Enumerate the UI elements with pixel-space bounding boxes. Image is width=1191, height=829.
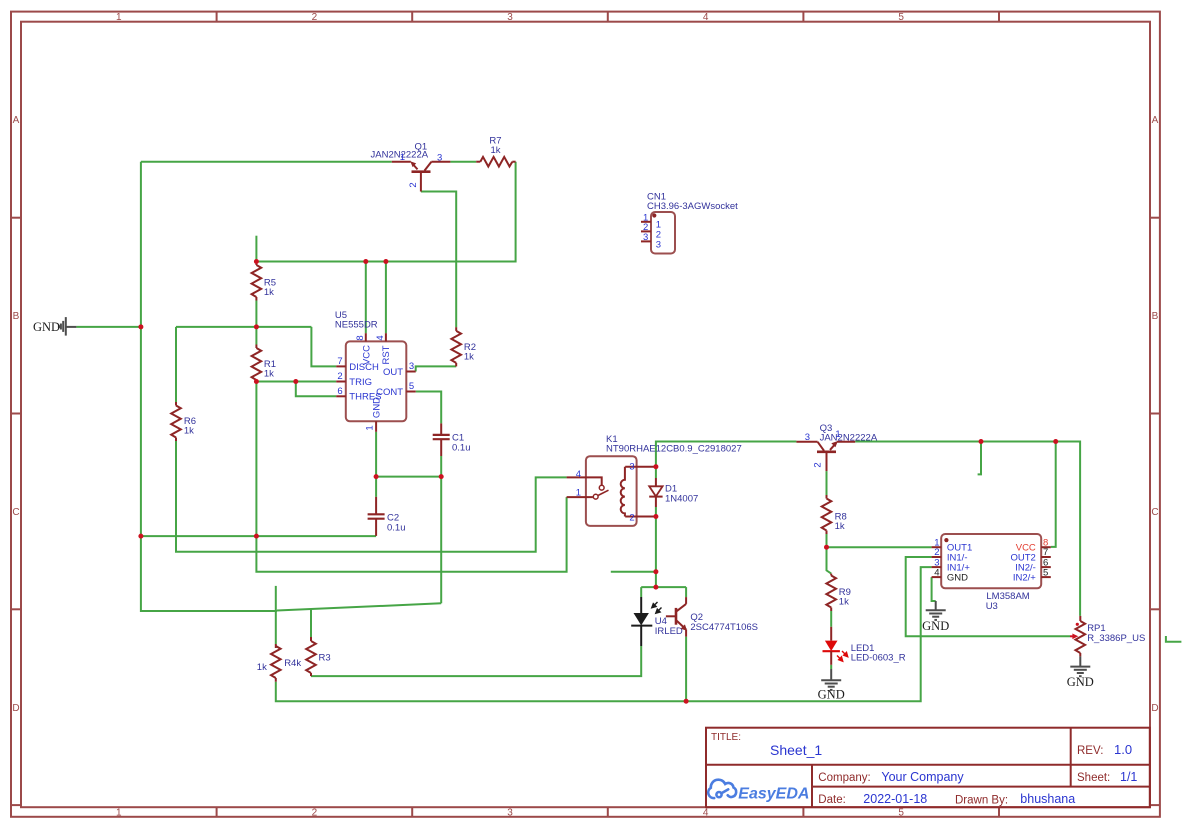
svg-text:2: 2 xyxy=(312,12,318,23)
wire U5 pin1 drop xyxy=(375,432,377,477)
resistor body R1 xyxy=(252,348,262,380)
svg-text:3: 3 xyxy=(629,462,634,473)
photodiode U4 IRLED xyxy=(631,597,652,646)
resistor body R7 xyxy=(480,157,512,167)
diode D1 xyxy=(655,478,657,486)
svg-text:Company:: Company: xyxy=(818,772,870,784)
resistor body R5 xyxy=(252,265,262,297)
svg-text:EasyEDA: EasyEDA xyxy=(738,785,809,802)
ground symbol U3 GND xyxy=(926,601,946,620)
svg-text:1: 1 xyxy=(400,152,405,163)
svg-text:1k: 1k xyxy=(464,352,474,363)
relay K1 box xyxy=(586,456,637,526)
potentiometer RP1 xyxy=(1079,616,1081,621)
svg-text:B: B xyxy=(1152,311,1159,322)
wire U3 pin2 to RP1 wiper xyxy=(906,557,1070,636)
junction R5/R1 node xyxy=(254,324,259,329)
svg-text:B: B xyxy=(13,311,20,322)
relay K1 switch lever xyxy=(598,490,608,495)
wire C1 column lower xyxy=(440,477,442,604)
wire stray L wire at margin xyxy=(1166,636,1182,642)
transistor Q1 xyxy=(392,162,451,192)
op-amp U3 LM358AM box xyxy=(941,534,1041,588)
wire diagonal segment xyxy=(277,603,441,610)
svg-text:1k: 1k xyxy=(257,662,267,673)
svg-text:U3: U3 xyxy=(986,601,998,612)
svg-text:1k: 1k xyxy=(264,287,274,298)
wire R9 to LED1 xyxy=(830,611,832,627)
svg-text:4: 4 xyxy=(703,12,709,23)
wire U5 pin8 drop xyxy=(365,262,367,334)
svg-text:NT90RHAE12CB0.9_C2918027: NT90RHAE12CB0.9_C2918027 xyxy=(606,444,742,455)
wire CONT to C1 top xyxy=(416,392,442,424)
wire D1 anode lead wire xyxy=(655,467,657,478)
wire R3 top lead wire xyxy=(310,609,312,637)
svg-text:1.0: 1.0 xyxy=(1114,742,1132,757)
wire R8 bottom lead wire xyxy=(826,534,828,547)
svg-text:2: 2 xyxy=(408,182,419,187)
EasyEDA logo cloud xyxy=(708,780,736,798)
svg-text:8: 8 xyxy=(355,335,366,340)
svg-text:3: 3 xyxy=(643,232,648,243)
LED LED1 xyxy=(830,627,832,641)
svg-text:0.1u: 0.1u xyxy=(387,522,406,533)
U3 pin1 dot xyxy=(944,538,948,542)
svg-text:CONT: CONT xyxy=(376,387,403,398)
svg-text:5: 5 xyxy=(1043,567,1048,578)
connector CN1 xyxy=(651,212,675,254)
relay K1 pin 2 xyxy=(625,516,656,518)
svg-text:R_3386P_US: R_3386P_US xyxy=(1087,633,1145,644)
wire TRIG rail xyxy=(256,381,336,383)
wire R5 bottom rail xyxy=(176,326,311,328)
wire R5 bottom lead wire xyxy=(255,301,257,327)
svg-text:REV:: REV: xyxy=(1077,745,1103,757)
relay K1 pin 3 xyxy=(625,466,656,468)
wire R1 top lead wire xyxy=(255,327,257,345)
svg-text:1: 1 xyxy=(116,12,122,23)
svg-text:GND: GND xyxy=(33,320,60,334)
junction GND node xyxy=(138,324,143,329)
svg-text:3: 3 xyxy=(507,12,513,23)
svg-text:1k: 1k xyxy=(264,369,274,380)
resistor R5 leads xyxy=(255,262,257,266)
RP1 top mark dot xyxy=(1076,623,1079,626)
svg-text:C: C xyxy=(1151,507,1158,518)
capacitor C1 xyxy=(433,423,450,456)
svg-text:bhushana: bhushana xyxy=(1020,792,1075,806)
RP1 wiper arrow xyxy=(1070,635,1074,637)
wire left vertical to bottom corner xyxy=(141,536,277,611)
wire U4 top lead wire xyxy=(640,587,642,597)
ground symbol RP1 GND xyxy=(1070,656,1090,676)
junction U5 VCC drop xyxy=(363,259,368,264)
junction VCC stub node xyxy=(979,439,984,444)
svg-text:A: A xyxy=(1152,115,1159,126)
wire R6 bottom to relay pin4 xyxy=(176,441,567,552)
U5 pins xyxy=(336,333,416,432)
resistor R3 leads xyxy=(310,637,312,641)
wire VCC top rail to R7 xyxy=(256,162,515,262)
svg-text:3: 3 xyxy=(507,807,513,818)
resistor R7 leads xyxy=(476,161,480,163)
wire U4 cathode to R3 xyxy=(311,646,641,676)
junction R8/R9/U3 node xyxy=(824,545,829,550)
resistor R9 leads xyxy=(830,574,832,576)
wire R5 top stub xyxy=(255,236,257,262)
title block outline xyxy=(706,728,1150,808)
resistor body R8 xyxy=(822,499,832,531)
svg-text:4: 4 xyxy=(703,807,709,818)
svg-text:0.1u: 0.1u xyxy=(452,442,471,453)
svg-text:5: 5 xyxy=(898,12,904,23)
wire rail to relay pin1 xyxy=(256,497,566,572)
junction C1 bottom xyxy=(439,474,444,479)
wire left vertical upper xyxy=(140,162,142,327)
wire DISCH wire xyxy=(311,327,336,367)
junction C2 rail left xyxy=(138,534,143,539)
junction relay pin2 / D1 xyxy=(653,514,658,519)
junction VCC / U3 pin8 xyxy=(1053,439,1058,444)
resistor R6 leads xyxy=(175,402,177,406)
svg-text:2: 2 xyxy=(813,462,824,467)
wire VCC rail to RP1 xyxy=(855,442,1080,616)
junction R5 top xyxy=(254,259,259,264)
wire U4-Q2 split rail xyxy=(641,586,686,588)
svg-text:Sheet_1: Sheet_1 xyxy=(770,742,822,758)
svg-text:1k: 1k xyxy=(835,521,845,532)
wire D1 cathode lead wire xyxy=(655,507,657,517)
svg-text:LED-0603_R: LED-0603_R xyxy=(851,653,906,664)
svg-text:1: 1 xyxy=(116,807,122,818)
junction C2 rail / R1 xyxy=(254,534,259,539)
svg-text:4: 4 xyxy=(576,469,581,480)
wire bottom rail to U3 pin3 xyxy=(276,567,932,701)
svg-text:2022-01-18: 2022-01-18 xyxy=(863,792,927,806)
wire dangling stub with hook xyxy=(978,442,981,475)
wire R8 to U3 pin1 xyxy=(827,546,932,548)
junction stub node xyxy=(653,569,658,574)
svg-text:1k: 1k xyxy=(184,426,194,437)
junction U5 GND / C2 xyxy=(374,474,379,479)
resistor body R9 xyxy=(826,576,836,608)
resistor R8 leads xyxy=(826,495,828,499)
transistor Q2 xyxy=(666,597,686,637)
resistor R1 leads xyxy=(255,345,257,349)
svg-text:R4k: R4k xyxy=(284,658,301,669)
capacitor C2 xyxy=(368,497,385,536)
svg-text:1k: 1k xyxy=(490,145,500,156)
svg-text:1: 1 xyxy=(365,425,376,430)
wire R1 bottom vertical xyxy=(255,382,257,537)
svg-text:GND: GND xyxy=(1067,675,1094,689)
svg-text:7: 7 xyxy=(337,356,342,367)
wire Q1 collector to R7 xyxy=(450,161,476,163)
svg-text:3: 3 xyxy=(656,239,661,250)
svg-text:Sheet:: Sheet: xyxy=(1077,772,1110,784)
wire D1 bottom vertical xyxy=(655,517,657,588)
wire R4k top lead wire xyxy=(275,586,277,644)
ground symbol LED1 GND xyxy=(821,669,841,690)
svg-text:IRLED: IRLED xyxy=(655,626,683,637)
resistor body R2 xyxy=(451,331,461,363)
wire left vertical mid xyxy=(140,327,142,536)
CN1 pin1 dot xyxy=(652,213,656,217)
svg-text:4: 4 xyxy=(934,567,939,578)
svg-text:GND: GND xyxy=(947,573,968,584)
svg-text:D: D xyxy=(12,703,19,714)
svg-text:A: A xyxy=(13,115,20,126)
ground flag GND left xyxy=(59,317,77,336)
svg-text:RST: RST xyxy=(381,345,392,364)
svg-text:1/1: 1/1 xyxy=(1120,770,1137,784)
wire Q2 emitter drop xyxy=(685,637,687,702)
junction R1 bottom / TRIG xyxy=(254,379,259,384)
wire GND flag stem wire xyxy=(76,326,140,328)
svg-text:1N4007: 1N4007 xyxy=(665,493,698,504)
wire C2 bottom rail xyxy=(141,535,376,537)
LED1 emission arrows xyxy=(837,651,848,661)
relay K1 pin 1 and switch contact xyxy=(567,496,593,498)
resistor R4k leads xyxy=(275,644,277,648)
wire VCC to U3 pin8 xyxy=(1051,442,1056,547)
svg-text:1: 1 xyxy=(576,488,581,499)
resistor body RP1 xyxy=(1076,621,1086,653)
relay K1 pin 4 and switch contact xyxy=(567,477,602,485)
wire stub into D1 column xyxy=(611,571,656,573)
svg-text:GND: GND xyxy=(818,688,845,702)
wire C2 top lead wire xyxy=(375,477,377,497)
svg-text:Your Company: Your Company xyxy=(881,770,964,784)
wire U5 pin4 drop xyxy=(385,262,387,334)
svg-text:1: 1 xyxy=(835,429,840,440)
svg-text:3: 3 xyxy=(437,152,442,163)
U4 incoming light arrows xyxy=(652,602,662,613)
svg-text:TITLE:: TITLE: xyxy=(711,732,741,743)
svg-text:C: C xyxy=(12,507,19,518)
junction relay pin3 / D1 xyxy=(653,464,658,469)
svg-text:1k: 1k xyxy=(839,597,849,608)
svg-text:Date:: Date: xyxy=(818,794,846,806)
svg-text:2SC4774T106S: 2SC4774T106S xyxy=(690,622,758,633)
svg-text:4: 4 xyxy=(375,335,386,340)
wire C1-C2 junction rail xyxy=(376,476,441,478)
svg-text:JAN2N2222A: JAN2N2222A xyxy=(820,433,878,444)
wire THRES wire xyxy=(296,382,336,397)
svg-text:3: 3 xyxy=(805,432,810,443)
wire LED1 cathode lead wire xyxy=(830,665,832,669)
wire R9 top jog xyxy=(827,547,832,573)
junction Q2 emitter / rail xyxy=(684,699,689,704)
junction U5 RST drop xyxy=(383,259,388,264)
wire Q1 emitter to left rail xyxy=(141,161,392,163)
svg-text:TRIG: TRIG xyxy=(349,377,372,388)
svg-text:2: 2 xyxy=(337,371,342,382)
svg-text:OUT: OUT xyxy=(383,367,403,378)
wire U3 pin4 to ground xyxy=(932,577,936,601)
svg-text:2: 2 xyxy=(629,512,634,523)
svg-text:GND: GND xyxy=(922,619,949,633)
svg-text:CH3.96-3AGWsocket: CH3.96-3AGWsocket xyxy=(647,201,738,212)
junction U4/Q2 split xyxy=(653,585,658,590)
svg-text:R3: R3 xyxy=(319,653,331,664)
resistor body R3 xyxy=(306,641,316,673)
wire D1 top to Q3 collector xyxy=(656,442,797,467)
resistor body R6 xyxy=(171,406,181,438)
svg-text:5: 5 xyxy=(409,381,414,392)
svg-text:Drawn By:: Drawn By: xyxy=(955,795,1008,807)
svg-text:D: D xyxy=(1151,703,1158,714)
svg-text:5: 5 xyxy=(898,807,904,818)
wire C1 bottom lead wire xyxy=(440,456,442,477)
wire R6 top xyxy=(175,327,177,402)
svg-text:2: 2 xyxy=(312,807,318,818)
resistor body R4k xyxy=(271,646,281,678)
wire OUT to R2 bottom xyxy=(416,366,457,371)
transistor Q3 xyxy=(796,442,855,471)
svg-text:3: 3 xyxy=(409,361,414,372)
relay K1 coil xyxy=(621,467,625,517)
wire Q1 base drop to R2 top xyxy=(421,192,456,328)
resistor R2 leads xyxy=(455,327,457,331)
wire Q2 collector lead wire xyxy=(685,587,687,597)
svg-text:IN2/+: IN2/+ xyxy=(1013,573,1036,584)
op-amp/timer U5 NE555DR box xyxy=(346,341,407,421)
svg-text:VCC: VCC xyxy=(362,345,373,365)
U3 pins xyxy=(932,547,1051,577)
wire Q3 base to R8 top xyxy=(826,471,828,495)
svg-text:6: 6 xyxy=(337,386,342,397)
svg-text:NE555DR: NE555DR xyxy=(335,320,378,331)
svg-text:GND: GND xyxy=(372,397,383,418)
junction TRIG/THRES node xyxy=(293,379,298,384)
